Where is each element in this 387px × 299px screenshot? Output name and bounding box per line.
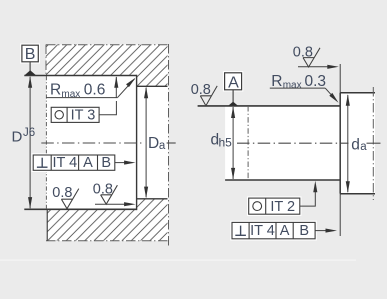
- svg-text:R: R: [50, 82, 61, 99]
- datum B box: [20, 44, 40, 64]
- dimension d h5 line: [232, 107, 234, 179]
- svg-text:max: max: [283, 80, 302, 91]
- svg-text:A: A: [228, 74, 239, 91]
- housing white body: [46, 45, 169, 242]
- perpendicular symbol: [41, 158, 43, 168]
- shoulder top surface: [340, 92, 375, 94]
- center line: [237, 142, 349, 144]
- bearing mid-plane dash-dot: [247, 106, 249, 180]
- dimension da line: [347, 95, 349, 192]
- shoulder face: [339, 93, 341, 194]
- svg-text:A: A: [83, 155, 93, 171]
- center line right cross: [367, 142, 381, 144]
- perpendicularity frame IT 4 A B (right): [230, 221, 316, 241]
- arrow up: [28, 76, 32, 88]
- top housing hatch: [46, 45, 168, 87]
- perpendicularity frame IT 4 A B (left): [32, 153, 117, 172]
- datum B leader: [29, 62, 31, 72]
- datum A triangle: [229, 102, 238, 106]
- shoulder bottom surface: [340, 193, 375, 195]
- break line right: [372, 87, 374, 200]
- IT4 leader arrow (left): [115, 162, 128, 164]
- bottom housing hatch: [47, 199, 168, 241]
- datum A box: [223, 71, 243, 91]
- svg-text:R: R: [271, 73, 282, 90]
- svg-text:0.6: 0.6: [84, 82, 106, 99]
- break line bottom: [46, 240, 168, 242]
- svg-text:IT 4: IT 4: [53, 155, 78, 171]
- Rmax vertical arrow to bore surface: [115, 77, 117, 98]
- svg-text:IT 2: IT 2: [270, 199, 295, 215]
- shoulder top surface: [137, 85, 168, 87]
- svg-text:d: d: [351, 136, 360, 153]
- shoulder face extension up: [339, 64, 341, 93]
- svg-text:a: a: [159, 140, 166, 152]
- break line top: [46, 44, 168, 46]
- svg-text:a: a: [360, 141, 367, 153]
- svg-text:IT 3: IT 3: [71, 108, 96, 124]
- svg-text:B: B: [299, 223, 309, 239]
- datum A leader: [232, 90, 234, 102]
- seat bottom surface: [225, 179, 340, 181]
- label Da: [148, 135, 167, 150]
- hidden seat edge dash-dot: [45, 76, 47, 209]
- svg-text:D: D: [12, 128, 23, 145]
- break line top-left: [45, 45, 47, 76]
- IT 2 leader with arrow up: [300, 188, 316, 206]
- shaft seat white body: [225, 106, 340, 180]
- arrow down: [28, 197, 32, 209]
- IT4 leader arrow (right): [315, 230, 329, 232]
- svg-text:max: max: [61, 89, 80, 100]
- shaft shoulder white body: [340, 93, 375, 194]
- label da: [351, 136, 366, 150]
- bore bottom surface: [24, 208, 136, 210]
- svg-text:B: B: [25, 46, 36, 63]
- roundness frame IT 2: [247, 196, 302, 216]
- faint row separator line: [0, 260, 356, 261]
- svg-text:D: D: [148, 135, 159, 152]
- svg-text:IT 4: IT 4: [250, 223, 275, 239]
- svg-text:h5: h5: [219, 135, 233, 149]
- center line left: [41, 142, 144, 144]
- IT 3 leader: [99, 101, 116, 115]
- shoulder bottom surface: [137, 198, 168, 200]
- dimension D J6 line: [29, 77, 31, 208]
- perpendicular symbol: [240, 226, 242, 236]
- bottom hatch left solid edge: [46, 209, 48, 240]
- Rmax 0.3 underline: [270, 87, 325, 89]
- svg-text:0.3: 0.3: [305, 73, 327, 90]
- dimension Da line: [145, 88, 147, 198]
- center line right cross: [167, 142, 176, 144]
- svg-text:B: B: [101, 155, 111, 171]
- svg-text:J6: J6: [23, 127, 35, 139]
- datum B triangle: [25, 70, 36, 75]
- seat top surface: [198, 105, 341, 107]
- break line right: [168, 44, 170, 246]
- bore top surface: [24, 75, 136, 77]
- Rmax 0.3 diagonal arrow to corner: [325, 88, 332, 96]
- roundness frame IT 3: [51, 107, 99, 122]
- shoulder face extension down: [339, 194, 341, 236]
- Rmax leader underline: [46, 97, 117, 99]
- svg-text:A: A: [280, 223, 290, 239]
- shoulder face: [136, 75, 138, 210]
- Rmax diagonal arrow to corner: [118, 79, 135, 98]
